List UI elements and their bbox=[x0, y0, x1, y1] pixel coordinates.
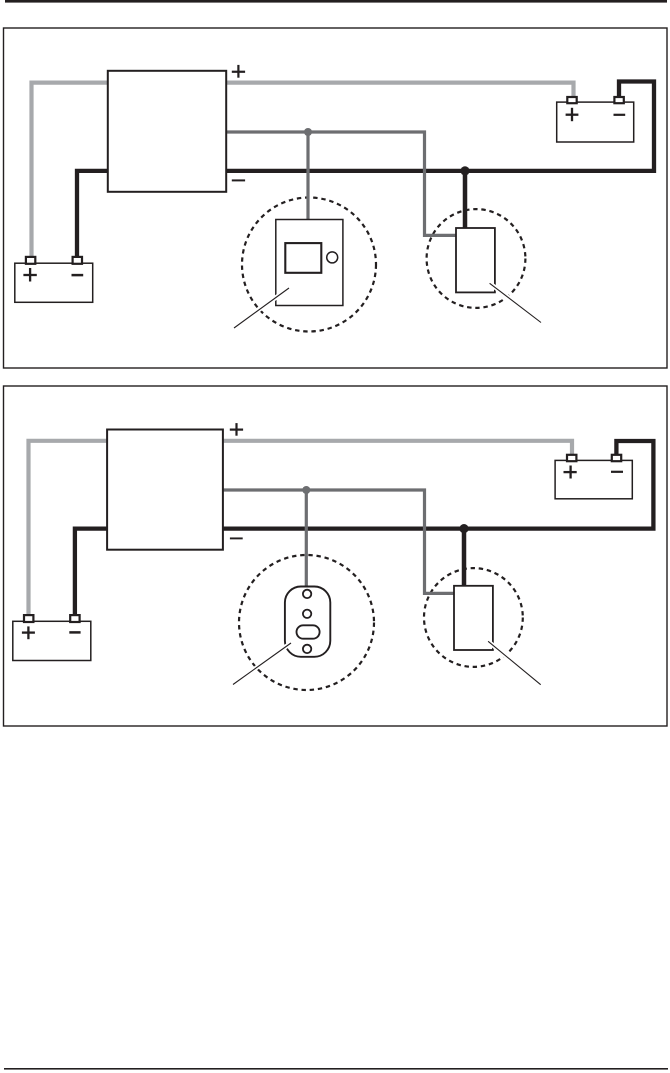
remote switch middle LED bbox=[303, 610, 311, 618]
wire: signal from charger to relay (medium gray) bbox=[222, 132, 458, 235]
remote switch body bbox=[285, 587, 330, 657]
bottom rule bbox=[4, 1068, 668, 1070]
wire: charger negative to start battery (black) bbox=[77, 171, 112, 257]
terminal (-) of start battery 2 bbox=[70, 615, 79, 622]
dashed circle around control panel bbox=[242, 198, 376, 332]
leader line to relay 2 bbox=[488, 641, 541, 684]
label - in start battery 2 bbox=[69, 631, 80, 634]
leader line halo (panel) bbox=[233, 287, 291, 329]
terminal (+) of start battery bbox=[26, 257, 35, 264]
leader line to control panel bbox=[234, 288, 289, 328]
relay bbox=[456, 228, 495, 292]
wire: main negative bus to auxiliary battery (black) bbox=[222, 82, 654, 171]
figure 2 frame bbox=[4, 386, 668, 726]
label - in start battery bbox=[72, 274, 84, 277]
figure 1 frame bbox=[4, 28, 668, 368]
junction (black) 2 bbox=[459, 524, 468, 533]
wire: signal branch down to control panel (medium gray) bbox=[306, 132, 309, 221]
terminal (-) of auxiliary battery bbox=[614, 97, 623, 103]
top rule bbox=[5, 0, 667, 3]
wire: charger positive to auxiliary battery (light gray) bbox=[222, 83, 574, 98]
label - (charger output) bbox=[232, 179, 245, 181]
label - in auxiliary battery 2 bbox=[611, 471, 623, 473]
terminal (+) of auxiliary battery 2 bbox=[567, 455, 576, 461]
leader line to remote switch bbox=[233, 643, 291, 685]
remote switch button (pill) bbox=[297, 625, 320, 638]
wire: signal from charger to relay 2 (medium gray) bbox=[219, 490, 456, 593]
label + in start battery bbox=[23, 268, 36, 282]
label + in auxiliary battery bbox=[566, 108, 579, 121]
button of control panel bbox=[327, 252, 338, 263]
battery charger box 2 bbox=[107, 430, 223, 550]
label + in auxiliary battery 2 bbox=[564, 466, 577, 479]
label + in start battery 2 bbox=[22, 626, 35, 639]
wire: main negative bus 2 (black) bbox=[219, 441, 653, 529]
junction (gray) bbox=[304, 128, 312, 136]
wire: black drop from bus to relay 2 bbox=[462, 529, 467, 588]
wire: charger positive to start battery 2 (light gray) bbox=[29, 441, 112, 616]
wire: black drop from bus to relay bbox=[463, 171, 468, 230]
start battery 2 bbox=[13, 621, 91, 660]
leader line halo (relay 2) bbox=[486, 640, 542, 686]
dashed circle around relay 2 bbox=[424, 568, 523, 667]
wire: charger positive to auxiliary battery 2 (light gray) bbox=[219, 441, 572, 456]
battery charger box bbox=[108, 71, 226, 192]
wire: charger positive to start battery (light gray) bbox=[32, 83, 113, 257]
terminal (+) of start battery 2 bbox=[24, 615, 33, 622]
junction (gray) 2 bbox=[302, 486, 310, 494]
remote switch bottom LED bbox=[303, 645, 311, 653]
wire: signal branch down to remote switch (medium gray) bbox=[305, 490, 308, 588]
start battery bbox=[15, 263, 93, 302]
dashed circle around relay bbox=[427, 209, 526, 308]
relay 2 bbox=[454, 586, 493, 650]
terminal (+) of auxiliary battery bbox=[567, 97, 576, 103]
leader line to relay bbox=[490, 283, 541, 322]
dashed circle around remote switch bbox=[239, 555, 374, 690]
label + (charger output) bbox=[232, 65, 245, 78]
wire: charger negative to start battery 2 (black) bbox=[75, 529, 111, 616]
leader line halo (relay) bbox=[488, 282, 542, 324]
label - in auxiliary battery bbox=[614, 114, 626, 116]
terminal (-) of start battery bbox=[73, 257, 82, 264]
auxiliary battery 2 bbox=[555, 460, 632, 498]
junction (black) bbox=[460, 166, 469, 175]
leader line halo (remote switch) bbox=[232, 642, 293, 685]
terminal (-) of auxiliary battery 2 bbox=[612, 455, 621, 461]
display window of control panel bbox=[285, 243, 321, 273]
control panel bbox=[276, 220, 343, 306]
label + (charger 2 output) bbox=[230, 423, 243, 436]
label - (charger 2 output) bbox=[230, 537, 243, 539]
auxiliary battery bbox=[557, 102, 634, 142]
remote switch top LED bbox=[303, 590, 311, 598]
